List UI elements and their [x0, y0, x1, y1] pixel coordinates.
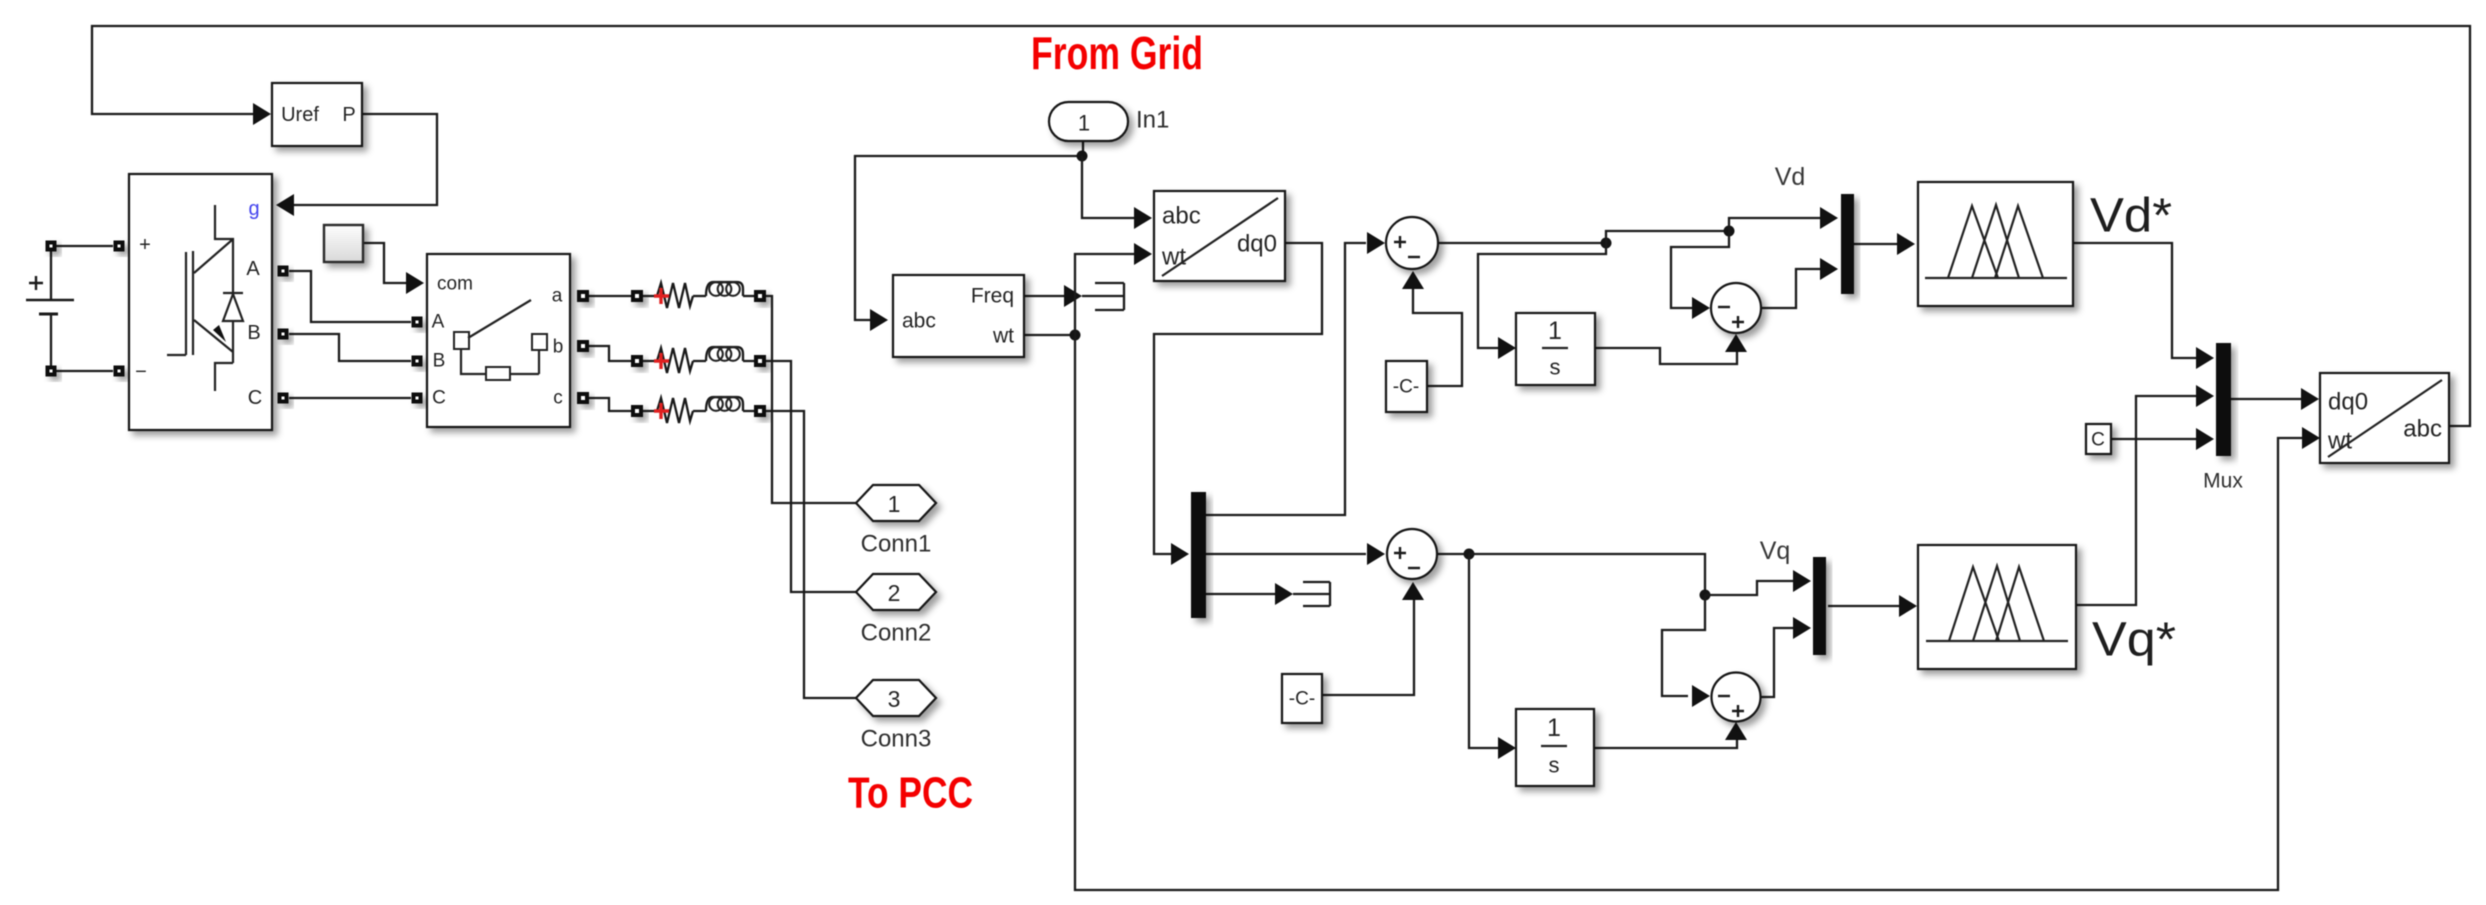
wire Mux output to dq0-abc input	[2231, 398, 2302, 400]
port square breaker B input	[412, 356, 423, 367]
wire inductor L1 out	[743, 295, 754, 297]
resistor R1	[652, 283, 693, 308]
wire demux output 2 (q) to Sum3	[1206, 553, 1366, 555]
wire junction up into Vd bar input1	[1729, 218, 1820, 231]
svg-text:B: B	[433, 351, 446, 372]
svg-text:Vd: Vd	[1775, 163, 1806, 191]
wire battery - terminal to IGBT - port	[51, 370, 113, 372]
wire constant C to Mux input3	[2111, 438, 2197, 440]
svg-text:-C-: -C-	[1289, 689, 1315, 710]
arrowhead into Sum1 left input	[1367, 232, 1385, 254]
svg-text:b: b	[553, 337, 564, 358]
label Conn1	[861, 531, 932, 558]
block constant C (zero component)	[2086, 424, 2111, 454]
wire battery + terminal to IGBT + port	[51, 245, 113, 247]
svg-text:Conn1: Conn1	[861, 531, 932, 558]
port square IGBT B output	[278, 329, 289, 340]
label Conn3	[861, 726, 932, 753]
port Conn3 (PMC port hexagon)	[856, 680, 936, 716]
wire into resistor R3	[643, 410, 652, 412]
resistor R2	[652, 348, 693, 373]
node square RL branch 2 left	[631, 355, 643, 367]
label Mux	[2203, 470, 2243, 493]
label Vd	[1775, 163, 1806, 191]
label Conn2	[861, 620, 932, 647]
junction after Sum1	[1601, 238, 1612, 249]
sum block Sum2 (- +)	[1711, 283, 1761, 333]
wire breaker output 3 to RL branch 3	[589, 398, 631, 411]
wire breaker output 2 to RL branch 2	[589, 346, 631, 361]
port Conn2 (PMC port hexagon)	[856, 574, 936, 610]
arrowhead up into Sum1 bottom input	[1402, 271, 1424, 289]
wire integrator1 output to Sum2 bottom	[1595, 348, 1737, 364]
node square RL branch 2 right	[754, 355, 766, 367]
wire timer block to breaker com input	[363, 243, 407, 283]
svg-text:Freq: Freq	[971, 285, 1014, 308]
wire Sum1 output to junction	[1438, 242, 1606, 244]
arrowhead into Vd bar input2	[1820, 258, 1838, 280]
wire junction to Vd mux upper path	[1606, 231, 1729, 243]
junction after Sum3	[1464, 549, 1475, 560]
wire wt junction up to abc-dq0 wt input	[1075, 254, 1135, 335]
port square breaker b output	[577, 340, 589, 352]
arrowhead up into Sum3 bottom input	[1402, 582, 1424, 600]
battery DC voltage source	[26, 251, 74, 366]
wire Sum1 junction to integrator1	[1478, 243, 1606, 348]
arrowhead up into Sum2 bottom input	[1725, 334, 1747, 352]
wire Sum3 junction down to integrator2	[1469, 554, 1499, 748]
wire PLL Freq output to terminator	[1025, 295, 1065, 297]
svg-text:abc: abc	[2403, 416, 2442, 443]
svg-text:C: C	[2091, 430, 2105, 451]
port square IGBT A output	[278, 266, 289, 277]
svg-text:-C-: -C-	[1393, 377, 1419, 398]
arrowhead into Sum4 left input	[1692, 685, 1710, 707]
wire abc-dq0 output down-left into demux	[1154, 243, 1322, 554]
label Vd*	[2090, 190, 2172, 243]
breaker switch icon	[454, 300, 547, 380]
arrowhead into breaker com port	[406, 272, 424, 294]
port square IGBT C output	[278, 393, 289, 404]
wire resistor R3 to inductor L3	[693, 410, 706, 412]
svg-text:2: 2	[888, 580, 901, 606]
port square IGBT - input	[114, 366, 125, 377]
wire wt junction down along bottom to dq0-abc wt input	[1075, 335, 2303, 890]
arrowhead into fuzzy controller 1	[1897, 233, 1915, 255]
arrowhead into demux input	[1171, 543, 1189, 565]
block Discrete PWM Generator (Uref P)	[272, 83, 362, 146]
svg-text:wt: wt	[1161, 244, 1186, 271]
wire into resistor R1	[643, 295, 652, 297]
svg-text:Vq*: Vq*	[2092, 614, 2176, 667]
wire junction down-left into Sum2 left input	[1671, 231, 1729, 308]
mux Mux (3-input black bar)	[2216, 343, 2231, 456]
node square battery + terminal	[46, 241, 57, 252]
arrowhead into Sum2 left input	[1692, 297, 1710, 319]
arrowhead into Vq bar input2	[1793, 617, 1811, 639]
arrowhead into IGBT g port (pointing left)	[276, 194, 294, 216]
block Three-Phase Breaker	[427, 254, 570, 427]
svg-text:To PCC: To PCC	[848, 769, 973, 818]
annotation text From Grid	[1031, 27, 1203, 79]
wire demux output 3 (zero) to terminator	[1206, 593, 1276, 595]
port square breaker c output	[577, 392, 589, 404]
svg-text:P: P	[342, 104, 355, 126]
node square RL branch 3 right	[754, 405, 766, 417]
junction on wt line	[1070, 330, 1081, 341]
arrowhead into Mux input1	[2196, 347, 2214, 369]
svg-text:A: A	[246, 258, 260, 280]
node square RL branch 3 left	[631, 405, 643, 417]
svg-text:abc: abc	[1162, 203, 1201, 230]
red polarity mark branch 3	[654, 403, 669, 419]
label Vq	[1760, 537, 1791, 565]
wire IGBT B output to breaker B input	[289, 334, 411, 361]
wire resistor R1 to inductor L1	[693, 295, 706, 297]
wire Uref P output to IGBT gate g	[293, 114, 437, 205]
arrowhead on zero terminator input	[1275, 583, 1293, 605]
block constant -C- (Vq reference)	[1282, 674, 1322, 723]
wire feedback loop: dq0-abc output up across top to Uref input	[92, 26, 2470, 426]
wire RL branch 3 to Conn3	[766, 411, 856, 698]
junction at In1	[1077, 151, 1088, 162]
svg-text:3: 3	[888, 686, 901, 712]
wire IGBT A output to breaker A input	[289, 271, 411, 322]
wire Vd bar output to fuzzy controller 1	[1854, 243, 1897, 245]
svg-text:s: s	[1549, 753, 1560, 778]
terminator (zero-sequence unused)	[1293, 582, 1330, 606]
wire junction down-left into Sum4 left input	[1662, 595, 1705, 696]
svg-text:C: C	[432, 388, 446, 409]
svg-text:dq0: dq0	[1237, 231, 1277, 258]
junction on Vq feed line	[1700, 590, 1711, 601]
arrowhead into abc-dq0 abc input	[1134, 207, 1152, 229]
svg-text:dq0: dq0	[2328, 389, 2368, 416]
node square RL branch 1 right	[754, 290, 766, 302]
arrowhead on Freq terminator input	[1064, 285, 1082, 307]
svg-text:−: −	[135, 361, 147, 383]
arrowhead into Vd bar input1	[1820, 207, 1838, 229]
wire fuzzy1 Vd* output to Mux input1	[2073, 243, 2197, 358]
node square RL branch 1 left	[631, 290, 643, 302]
wire into resistor R2	[643, 360, 652, 362]
wire Sum3 output to junction	[1438, 553, 1469, 555]
mux bar Vd (2-input black bar)	[1841, 194, 1854, 294]
arrowhead into fuzzy controller 2	[1899, 595, 1917, 617]
label Vq*	[2092, 614, 2176, 667]
port Conn1 (PMC port hexagon)	[856, 485, 936, 521]
svg-text:wt: wt	[2327, 428, 2352, 455]
arrowhead into PLL abc input	[870, 309, 888, 331]
arrowhead into Uref P input	[253, 103, 271, 125]
port square breaker a output	[577, 290, 589, 302]
arrowhead into integrator 1/s input	[1498, 337, 1516, 359]
svg-text:Vq: Vq	[1760, 537, 1791, 565]
svg-text:1: 1	[1078, 111, 1090, 136]
wire junction into Vq bar input1	[1705, 581, 1794, 595]
wire RL branch 1 to Conn1	[766, 296, 856, 503]
block dq0 to abc transformation	[2320, 373, 2449, 463]
wire inductor L2 out	[743, 360, 754, 362]
wire junction left and down into PLL abc input	[855, 156, 1082, 320]
label In1	[1136, 107, 1169, 134]
inductor L3	[706, 397, 743, 411]
wire constant C2 to Sum3 bottom input	[1322, 600, 1414, 695]
block Fuzzy Logic Controller 2 (membership triangles)	[1918, 545, 2076, 669]
demux (black bar) splitting dq0 components	[1191, 492, 1206, 618]
arrowhead into Vq bar input1	[1793, 570, 1811, 592]
block Fuzzy Logic Controller 1 (membership triangles)	[1918, 182, 2073, 306]
wire inductor L3 out	[743, 410, 754, 412]
red polarity mark branch 2	[654, 353, 669, 369]
arrowhead into dq0-abc dq0 input	[2301, 388, 2319, 410]
block constant -C- (Vd reference)	[1386, 361, 1427, 412]
svg-text:1: 1	[1548, 317, 1562, 345]
arrowhead into Sum3 left input	[1367, 543, 1385, 565]
svg-text:+: +	[139, 234, 151, 256]
wire junction right then down to Vq feed junction	[1469, 554, 1705, 595]
svg-text:Vd*: Vd*	[2090, 190, 2172, 243]
svg-text:B: B	[247, 322, 260, 344]
resistor R3	[652, 398, 693, 423]
arrowhead up into Sum4 bottom input	[1725, 722, 1747, 740]
svg-text:wt: wt	[992, 325, 1014, 348]
IGBT with anti-parallel diode icon inside bridge block	[167, 205, 243, 391]
inductor L1	[706, 282, 743, 296]
arrowhead into abc-dq0 wt input	[1134, 243, 1152, 265]
wire breaker output 1 to RL branch 1	[589, 295, 631, 297]
block breaker timing constant (gray square)	[324, 225, 363, 262]
wire In1 stem to junction	[1082, 141, 1084, 156]
port square breaker A input	[412, 317, 423, 328]
annotation text To PCC	[848, 769, 973, 818]
svg-text:Conn2: Conn2	[861, 620, 932, 647]
wire IGBT C output to breaker C input	[289, 397, 411, 399]
port square breaker C input	[412, 393, 423, 404]
red polarity mark branch 1	[654, 288, 669, 304]
mux bar Vq (2-input black bar)	[1813, 557, 1826, 655]
terminator (Freq unused output)	[1082, 283, 1124, 310]
arrowhead into dq0-abc wt input	[2302, 427, 2320, 449]
wire constant C1 to Sum1 minus input	[1413, 289, 1462, 386]
svg-text:com: com	[437, 274, 473, 295]
block integrator 1/s (Vd path)	[1516, 313, 1595, 385]
sum block Sum4 (- +)	[1712, 673, 1761, 722]
wire integrator2 output to Sum4 bottom	[1594, 739, 1737, 748]
svg-text:Mux: Mux	[2203, 470, 2243, 493]
port square IGBT + input	[114, 241, 125, 252]
svg-text:a: a	[552, 286, 563, 307]
svg-text:In1: In1	[1136, 107, 1169, 134]
wire RL branch 2 to Conn2	[766, 361, 856, 592]
svg-text:C: C	[248, 387, 262, 409]
wire resistor R2 to inductor L2	[693, 360, 706, 362]
svg-text:c: c	[553, 388, 563, 409]
block integrator 1/s (Vq path)	[1516, 709, 1594, 786]
svg-text:Uref: Uref	[281, 104, 319, 126]
wire PLL wt output to junction	[1025, 334, 1075, 336]
svg-text:Conn3: Conn3	[861, 726, 932, 753]
wire junction down to abc-dq0 abc input	[1082, 156, 1135, 218]
arrowhead into Mux input3	[2196, 428, 2214, 450]
svg-text:s: s	[1550, 355, 1561, 380]
arrowhead into Mux input2	[2196, 385, 2214, 407]
block Universal Bridge (IGBT inverter)	[129, 174, 272, 430]
svg-text:1: 1	[1547, 714, 1561, 742]
sum block Sum1 (+ -)	[1386, 217, 1438, 269]
node square battery - terminal	[46, 366, 57, 377]
block abc to dq0 transformation	[1154, 191, 1285, 281]
wire Vq bar output to fuzzy controller 2	[1828, 605, 1900, 607]
wire demux output 1 (d) up to Sum1	[1206, 243, 1366, 515]
sum block Sum3 (+ -)	[1387, 529, 1437, 579]
wire Sum4 output to Vq bar input2	[1760, 628, 1794, 697]
svg-text:A: A	[432, 312, 445, 333]
svg-text:abc: abc	[902, 310, 936, 333]
wire Sum2 output to Vd bar input2	[1761, 269, 1820, 308]
block Discrete Virtual PLL (abc/Freq/wt)	[893, 275, 1024, 357]
junction on Vd feed line	[1724, 226, 1735, 237]
inductor L2	[706, 347, 743, 361]
svg-text:From Grid: From Grid	[1031, 27, 1203, 79]
arrowhead into integrator2 1/s input	[1498, 737, 1516, 759]
inport In1 (oval)	[1049, 102, 1128, 141]
svg-text:1: 1	[888, 491, 901, 517]
wire fuzzy2 Vq* output up to Mux input2	[2076, 396, 2197, 605]
svg-text:g: g	[248, 198, 259, 220]
